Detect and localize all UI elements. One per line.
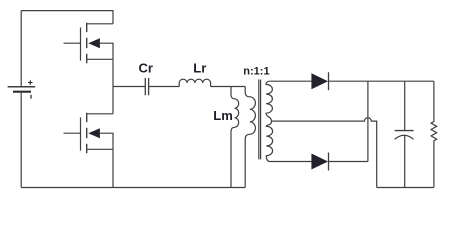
- transistor Q1 gate bar: [80, 27, 82, 60]
- transformer T1 primary winding: [245, 87, 255, 188]
- wire midpoint to Cr: [113, 86, 145, 88]
- inductor Lm: [231, 87, 239, 188]
- transistor Q2 gate lead: [64, 132, 81, 134]
- voltage source V1 minus mark: [30, 95, 31, 99]
- wire Cr to Lr: [149, 86, 180, 88]
- transistor Q1 drain stub: [87, 23, 113, 25]
- transistor Q2 gate bar: [80, 117, 82, 150]
- wire D2 to riser: [329, 161, 368, 163]
- wire half-bridge midpoint vertical: [112, 59, 114, 114]
- capacitor Co top plate: [395, 130, 414, 132]
- diode D1: [311, 73, 328, 89]
- wire Q2 source to bottom rail: [112, 149, 114, 187]
- transistor Q2 source stub: [87, 148, 113, 150]
- wire left rail upper: [20, 11, 22, 87]
- transistor Q1 channel bars: [86, 23, 88, 64]
- diode D2: [311, 154, 328, 170]
- voltage source V1 short plate: [13, 91, 31, 93]
- capacitor Co curved plate: [395, 135, 414, 139]
- svg-text:n:1:1: n:1:1: [243, 66, 269, 78]
- wire bottom rail: [21, 187, 245, 189]
- svg-text:Cr: Cr: [139, 61, 153, 76]
- transistor Q1 body line: [100, 43, 113, 59]
- svg-text:+: +: [28, 78, 33, 88]
- transistor Q2 channel bars: [86, 113, 88, 154]
- capacitor Cr plates: [145, 78, 148, 95]
- transformer T1 secondary winding lower: [266, 121, 272, 161]
- resistor R load: [431, 81, 437, 187]
- transistor Q1 body arrow: [88, 38, 100, 48]
- transformer T1 secondary winding upper: [266, 81, 272, 121]
- diode D1 cathode bar: [328, 72, 330, 90]
- capacitor Co lead upper: [404, 81, 406, 130]
- transistor Q2 body line: [100, 133, 113, 149]
- wire output top rail: [329, 80, 434, 82]
- transistor Q1 source stub: [87, 58, 113, 60]
- capacitor Co lead lower: [404, 136, 406, 188]
- diode D2 cathode bar: [328, 153, 330, 171]
- wire center tap with hop: [272, 118, 377, 188]
- transistor Q1 gate lead: [64, 42, 81, 44]
- inductor Lr: [179, 79, 210, 86]
- wire Lr to primary: [211, 86, 246, 88]
- voltage source V1 long plate: [8, 86, 36, 88]
- transformer T1 core: [259, 80, 261, 160]
- transistor Q2 drain stub: [87, 113, 113, 115]
- wire left rail lower: [20, 92, 22, 187]
- wire secondary top to D1: [270, 80, 311, 82]
- wire top rail: [21, 11, 113, 24]
- transistor Q2 body arrow: [88, 128, 100, 138]
- svg-text:Lm: Lm: [213, 108, 233, 123]
- wire secondary bottom to D2: [270, 161, 312, 163]
- svg-text:Lr: Lr: [193, 61, 206, 76]
- wire D2 riser to top rail: [367, 81, 369, 161]
- wire output bottom rail: [377, 187, 434, 189]
